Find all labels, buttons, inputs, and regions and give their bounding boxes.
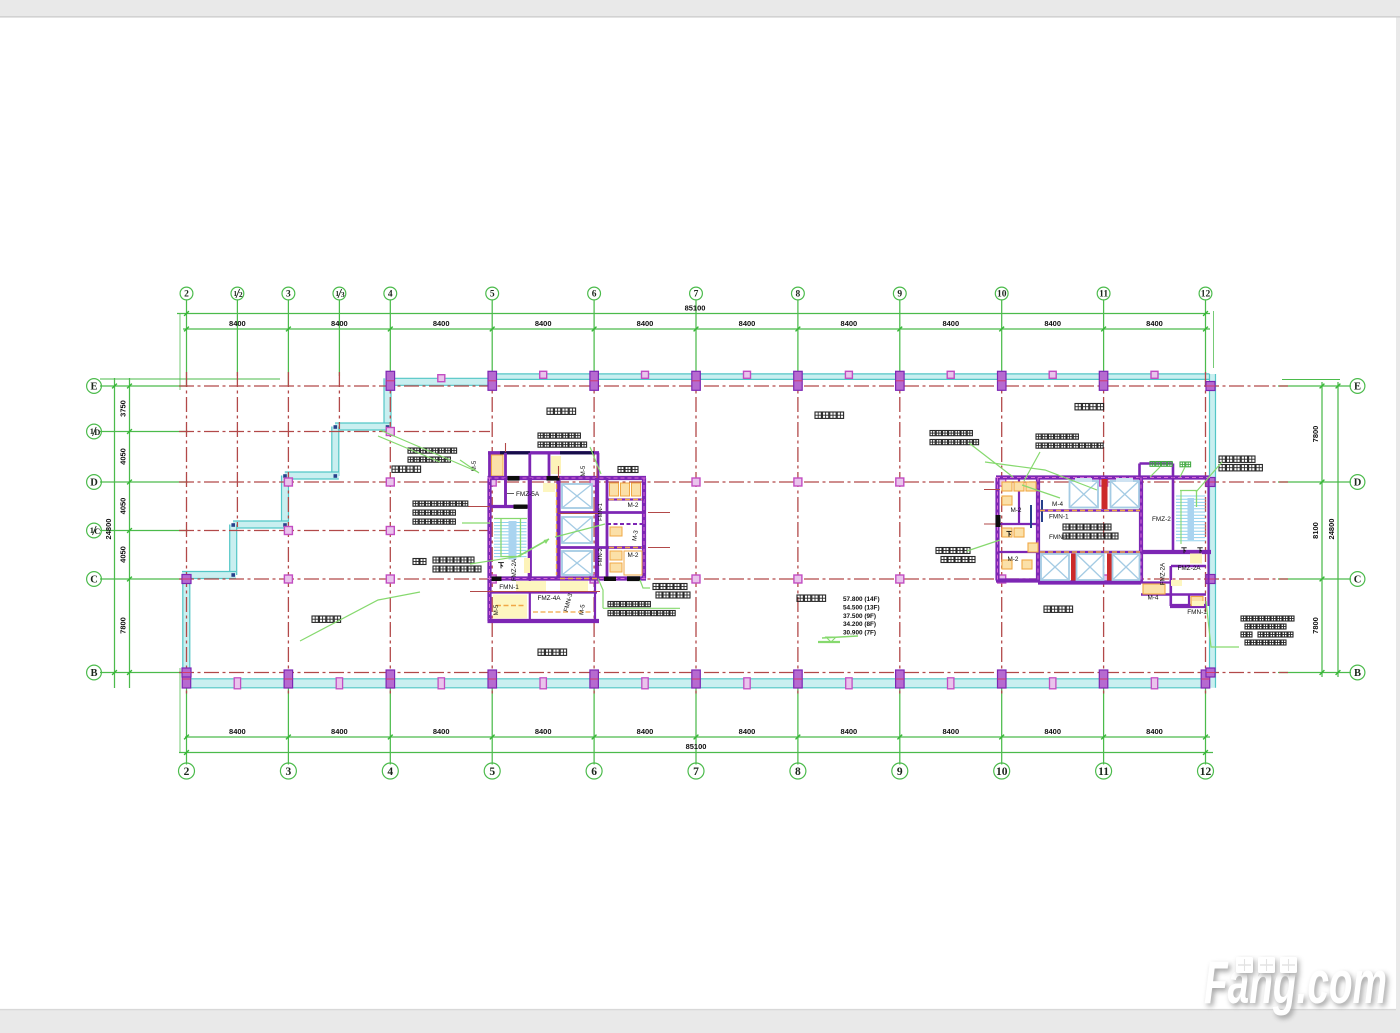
svg-text:4050: 4050	[119, 498, 128, 515]
fang.com watermark	[1204, 949, 1390, 1019]
svg-text:8400: 8400	[841, 319, 858, 328]
svg-text:11: 11	[1098, 766, 1109, 778]
svg-text:10: 10	[996, 766, 1008, 778]
green axis grid and dimension lines	[100, 300, 1351, 765]
svg-text:8400: 8400	[1044, 319, 1061, 328]
svg-text:7: 7	[693, 766, 699, 778]
svg-text:M-2: M-2	[627, 502, 638, 509]
svg-text:12: 12	[1200, 766, 1212, 778]
leader annotation: no.3 stair (bold)	[1196, 456, 1262, 492]
svg-text:E: E	[90, 382, 97, 393]
svg-text:7800: 7800	[1311, 617, 1320, 634]
svg-text:D: D	[90, 478, 98, 489]
red structural grid lines	[179, 372, 1288, 694]
svg-text:3: 3	[341, 290, 345, 299]
leader annotation: no.1 toilet vent (bold)	[640, 580, 690, 598]
svg-text:8400: 8400	[229, 727, 246, 736]
svg-text:8400: 8400	[229, 319, 246, 328]
svg-text:FMZ-2A: FMZ-2A	[1160, 562, 1167, 585]
svg-text:57.800 (14F): 57.800 (14F)	[843, 596, 880, 603]
leader annotation: left wall opening note 1	[408, 448, 479, 473]
svg-text:FMN-1: FMN-1	[1187, 609, 1207, 616]
svg-text:85100: 85100	[686, 742, 707, 751]
svg-text:8400: 8400	[942, 727, 959, 736]
svg-text:M-4: M-4	[1147, 595, 1158, 602]
right dimension texts	[1311, 426, 1336, 634]
svg-text:30.900 (7F): 30.900 (7F)	[843, 630, 876, 637]
right core green small texts	[1150, 462, 1191, 478]
columns on right wall	[1206, 382, 1215, 678]
svg-text:8100: 8100	[1311, 522, 1320, 539]
svg-text:8400: 8400	[841, 727, 858, 736]
svg-text:12: 12	[1201, 290, 1211, 300]
exterior wall right (axis 12)	[1210, 374, 1216, 688]
svg-text:4050: 4050	[119, 546, 128, 563]
svg-text:7: 7	[694, 290, 699, 300]
svg-text:D: D	[94, 427, 100, 437]
svg-text:D: D	[1354, 478, 1362, 489]
svg-text:2: 2	[184, 766, 190, 778]
columns on stepped wall	[182, 478, 292, 677]
right core toilet red stubs and lintel	[984, 490, 1001, 528]
svg-text:8400: 8400	[739, 727, 756, 736]
svg-text:4: 4	[387, 766, 393, 778]
svg-text:2: 2	[239, 290, 243, 299]
columns on top wall	[386, 371, 1158, 390]
axis circles top	[180, 287, 1212, 300]
interior grid columns	[284, 428, 1107, 584]
svg-text:C: C	[94, 526, 100, 536]
svg-text:4: 4	[388, 290, 393, 300]
svg-text:8: 8	[796, 290, 801, 300]
svg-text:9: 9	[897, 766, 903, 778]
svg-text:FMZ-5A: FMZ-5A	[516, 491, 540, 498]
left core upper annex walls	[488, 451, 599, 506]
leader annotation: above right core (left)	[930, 431, 1013, 478]
right core elevators top bank	[1070, 478, 1140, 508]
left dimension texts	[104, 400, 128, 634]
svg-text:M-5: M-5	[580, 465, 587, 476]
left core door lintels	[492, 476, 641, 581]
left core long green diagonals	[300, 430, 605, 641]
svg-text:7800: 7800	[1311, 426, 1320, 443]
stepped exterior wall left	[182, 378, 391, 687]
axis circles bottom	[179, 763, 1214, 779]
svg-text:4050: 4050	[119, 448, 128, 465]
svg-text:85100: 85100	[685, 304, 706, 313]
lobby label (2 lines) right core	[1063, 524, 1118, 539]
room label above left toilets	[618, 467, 638, 473]
svg-text:37.500 (9F): 37.500 (9F)	[843, 613, 876, 620]
svg-text:FMN-1: FMN-1	[598, 503, 604, 521]
svg-text:M-4: M-4	[1052, 501, 1063, 508]
svg-text:B: B	[90, 668, 97, 679]
svg-text:3: 3	[286, 290, 291, 300]
svg-text:10: 10	[997, 290, 1007, 300]
leader annotation: below left core	[598, 579, 680, 616]
svg-text:6: 6	[592, 290, 597, 300]
svg-text:8400: 8400	[637, 319, 654, 328]
right core walls	[996, 478, 1211, 607]
left core main walls	[488, 478, 647, 621]
svg-text:FMZ-2: FMZ-2	[1152, 516, 1171, 523]
svg-text:C: C	[1354, 575, 1362, 586]
svg-text:34.200 (8F): 34.200 (8F)	[843, 621, 876, 628]
svg-text:E: E	[1354, 382, 1361, 393]
svg-text:11: 11	[1099, 290, 1108, 300]
svg-text:FMN-1: FMN-1	[499, 584, 519, 591]
lobby leader diagonals over right core	[985, 462, 1097, 498]
svg-text:5: 5	[489, 766, 495, 778]
step corner markers	[231, 425, 389, 577]
svg-text:8400: 8400	[1146, 727, 1163, 736]
svg-text:B: B	[1354, 668, 1361, 679]
svg-text:8400: 8400	[331, 319, 348, 328]
leader annotation: no.1 elevator hall (bold)	[413, 557, 518, 573]
svg-text:8400: 8400	[1146, 319, 1163, 328]
right core labels	[1006, 501, 1207, 616]
svg-text:5: 5	[490, 290, 495, 300]
svg-text:8400: 8400	[942, 319, 959, 328]
right core stair	[1176, 491, 1206, 554]
axis circles right	[1350, 379, 1365, 680]
svg-text:FMZ-2A: FMZ-2A	[1177, 565, 1201, 572]
svg-text:8400: 8400	[433, 319, 450, 328]
leader annotation: no.2 toilet vent (bold)	[936, 540, 1000, 563]
svg-text:8400: 8400	[535, 319, 552, 328]
left core stair	[494, 519, 549, 560]
svg-text:24800: 24800	[104, 519, 113, 540]
svg-text:FMZ-4A: FMZ-4A	[537, 595, 561, 602]
svg-text:8400: 8400	[433, 727, 450, 736]
svg-text:3: 3	[286, 766, 292, 778]
left core toilet fixtures	[493, 483, 642, 619]
svg-text:FMN-1: FMN-1	[1049, 514, 1069, 521]
svg-text:M-5: M-5	[493, 604, 500, 615]
svg-text:FMN-2: FMN-2	[598, 548, 604, 566]
left core labels	[471, 460, 640, 615]
svg-text:M-2: M-2	[627, 552, 638, 559]
svg-text:7800: 7800	[119, 617, 128, 634]
svg-text:M-2: M-2	[1010, 507, 1021, 514]
axis circles left	[87, 379, 102, 680]
exterior wall top (row E)	[387, 374, 1210, 385]
svg-text:C: C	[90, 575, 98, 586]
right core toilets fixtures	[1002, 482, 1204, 606]
svg-text:2: 2	[184, 290, 189, 300]
left core elevators	[562, 484, 592, 575]
leader annotation: bottom right note	[1206, 601, 1294, 647]
leader annotation: above left core	[538, 433, 601, 474]
left core red wall centerlines	[468, 443, 670, 592]
dimension text 8400 top row	[229, 304, 1163, 329]
right core red column fills	[1071, 479, 1112, 581]
svg-text:8400: 8400	[1044, 727, 1061, 736]
svg-text:6: 6	[591, 766, 597, 778]
dimension text 8400 bottom row	[229, 727, 1163, 751]
leader annotation: left wall opening note 2	[413, 501, 490, 524]
svg-text:M-2: M-2	[1007, 556, 1018, 563]
svg-text:FMZ-2A: FMZ-2A	[511, 558, 518, 581]
exterior wall bottom (row B)	[183, 679, 1210, 688]
right core upper annex box	[1140, 464, 1174, 478]
svg-text:9: 9	[897, 290, 902, 300]
svg-text:24800: 24800	[1327, 519, 1336, 540]
level list text	[818, 596, 880, 642]
svg-text:8400: 8400	[535, 727, 552, 736]
svg-text:8400: 8400	[739, 319, 756, 328]
svg-text:8: 8	[795, 766, 801, 778]
svg-text:54.500 (13F): 54.500 (13F)	[843, 604, 880, 611]
svg-text:8400: 8400	[331, 727, 348, 736]
svg-text:3750: 3750	[119, 400, 128, 417]
right core elevators bottom bank	[1041, 554, 1140, 580]
leader annotation: above right core (right)	[1024, 434, 1103, 481]
svg-text:8400: 8400	[637, 727, 654, 736]
columns on bottom wall	[182, 670, 1210, 689]
workspace labels (CJK simulated)	[312, 404, 1104, 656]
